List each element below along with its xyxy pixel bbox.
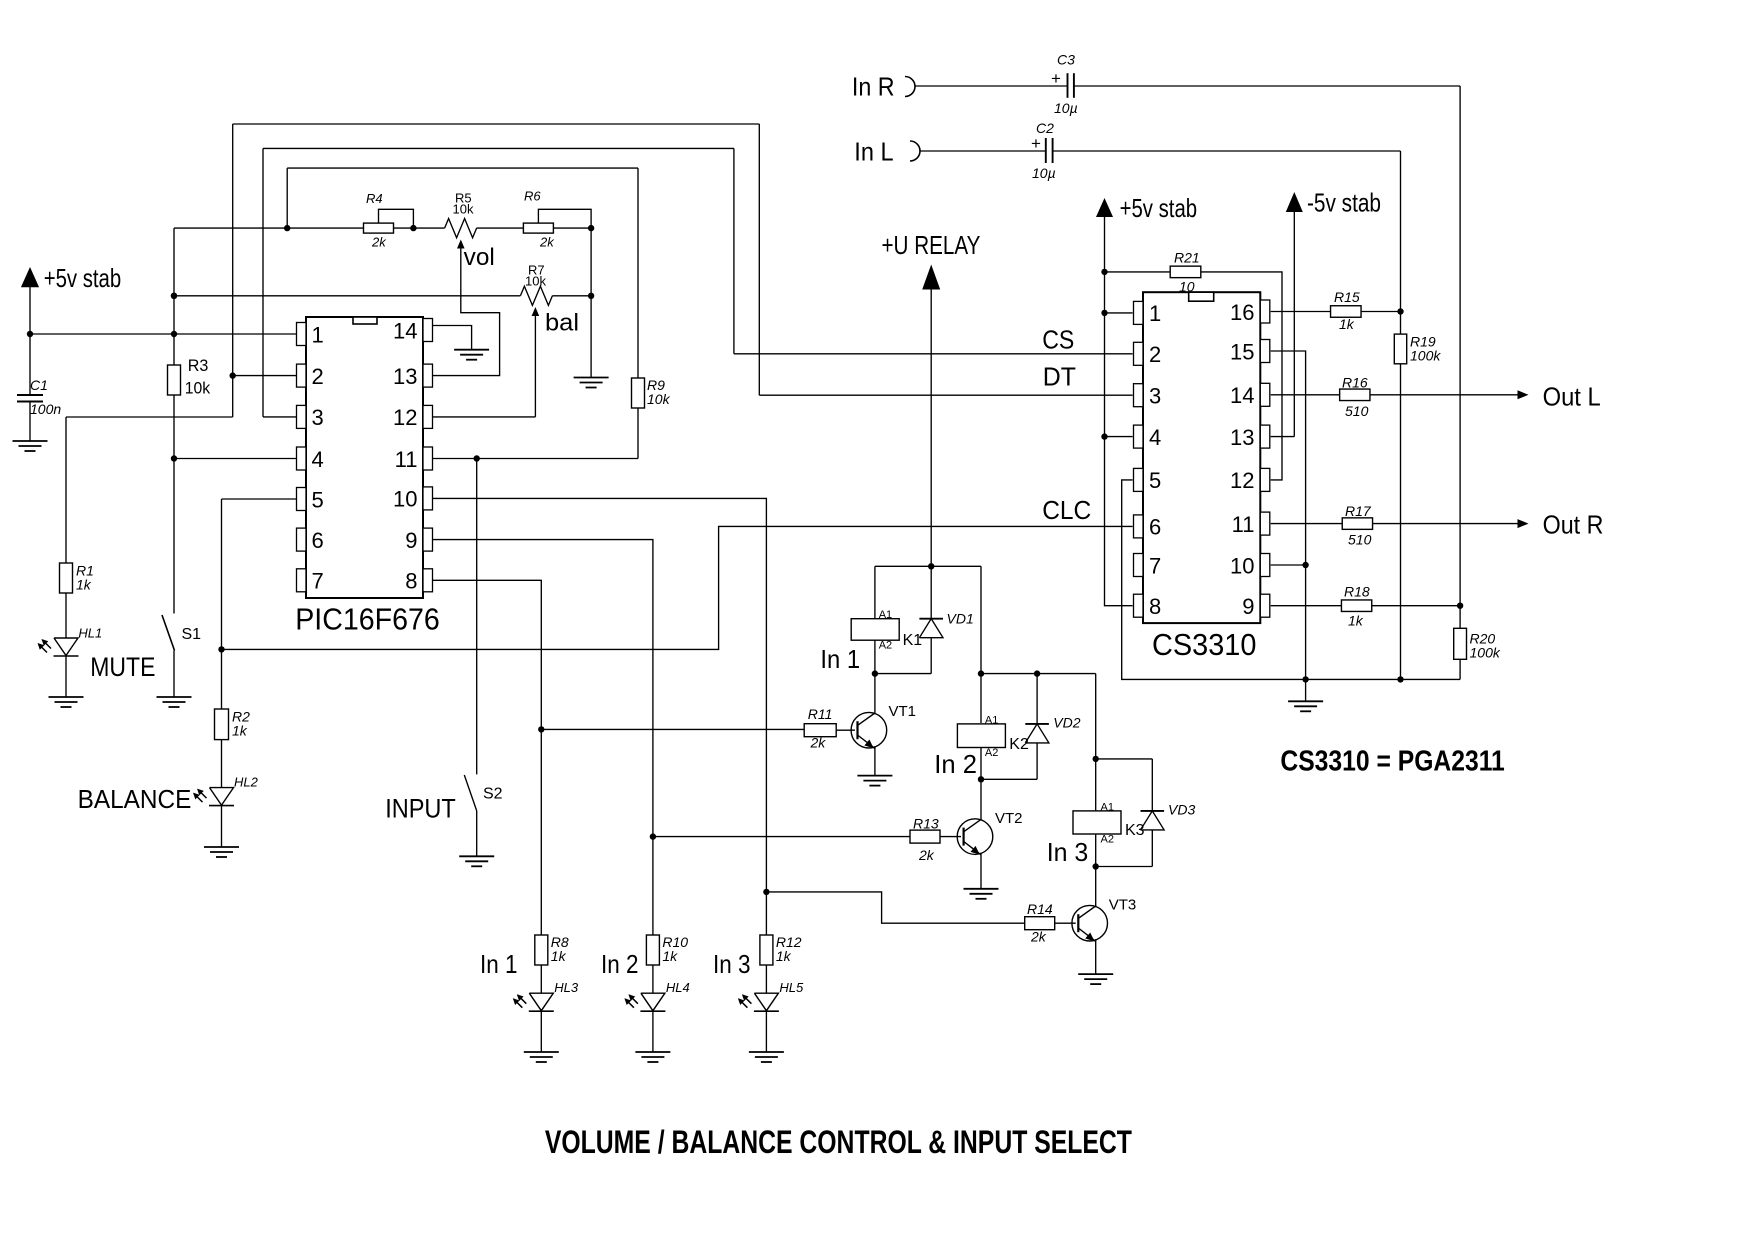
svg-text:R16: R16 (1342, 375, 1368, 391)
svg-text:+5v stab: +5v stab (44, 263, 122, 293)
svg-text:In 2: In 2 (601, 949, 639, 979)
svg-text:In 1: In 1 (820, 644, 860, 674)
svg-text:A2: A2 (879, 640, 892, 652)
svg-text:In 1: In 1 (480, 949, 518, 979)
svg-text:DT: DT (1043, 362, 1076, 392)
svg-text:R17: R17 (1345, 503, 1372, 519)
svg-text:14: 14 (1230, 383, 1254, 408)
svg-text:K2: K2 (1009, 736, 1029, 753)
svg-text:A2: A2 (985, 747, 998, 759)
svg-text:R6: R6 (524, 189, 541, 204)
svg-text:In 3: In 3 (1047, 837, 1089, 867)
svg-text:VT1: VT1 (889, 703, 917, 720)
svg-text:9: 9 (1242, 594, 1254, 619)
svg-text:VOLUME / BALANCE CONTROL & INP: VOLUME / BALANCE CONTROL & INPUT SELECT (545, 1124, 1132, 1160)
svg-text:S1: S1 (182, 626, 202, 643)
svg-text:R13: R13 (913, 816, 939, 832)
svg-text:CS3310: CS3310 (1152, 627, 1256, 662)
svg-text:+U RELAY: +U RELAY (882, 230, 981, 260)
svg-text:11: 11 (395, 447, 418, 472)
svg-text:12: 12 (1230, 468, 1254, 493)
svg-text:8: 8 (1149, 594, 1161, 619)
svg-text:10k: 10k (185, 379, 211, 398)
svg-text:+: + (1031, 134, 1041, 153)
svg-text:A1: A1 (985, 714, 998, 726)
svg-text:CLC: CLC (1042, 495, 1091, 525)
svg-text:10µ: 10µ (1032, 165, 1056, 181)
svg-text:9: 9 (405, 528, 417, 553)
svg-text:VD2: VD2 (1053, 715, 1080, 731)
svg-text:HL4: HL4 (666, 980, 690, 995)
svg-text:1k: 1k (76, 577, 92, 593)
svg-text:14: 14 (393, 318, 417, 343)
svg-text:INPUT: INPUT (385, 793, 456, 823)
svg-text:3: 3 (312, 405, 324, 430)
svg-text:K1: K1 (903, 632, 923, 649)
svg-text:1: 1 (312, 322, 324, 347)
svg-text:2k: 2k (539, 235, 555, 250)
svg-text:R14: R14 (1027, 901, 1053, 917)
svg-text:+: + (1051, 69, 1061, 88)
svg-text:A2: A2 (1101, 834, 1114, 846)
svg-text:2: 2 (312, 364, 324, 389)
svg-text:7: 7 (312, 569, 324, 594)
svg-text:PIC16F676: PIC16F676 (295, 602, 440, 637)
svg-text:HL5: HL5 (779, 980, 804, 995)
svg-text:100k: 100k (1410, 348, 1441, 364)
svg-text:4: 4 (312, 447, 324, 472)
svg-text:6: 6 (1149, 515, 1161, 540)
svg-text:2k: 2k (371, 235, 387, 250)
svg-text:bal: bal (545, 310, 579, 337)
svg-text:100n: 100n (30, 401, 61, 417)
svg-text:3: 3 (1149, 384, 1161, 409)
svg-text:510: 510 (1348, 532, 1372, 548)
svg-text:16: 16 (1230, 300, 1254, 325)
svg-text:R15: R15 (1334, 289, 1360, 305)
svg-text:11: 11 (1232, 512, 1255, 537)
svg-text:10: 10 (393, 487, 417, 512)
svg-text:VT2: VT2 (995, 810, 1023, 827)
svg-text:1k: 1k (232, 723, 248, 739)
svg-text:In L: In L (854, 137, 893, 167)
svg-text:1k: 1k (776, 948, 792, 964)
svg-text:510: 510 (1345, 403, 1369, 419)
svg-text:Out R: Out R (1543, 510, 1604, 540)
svg-text:10: 10 (1230, 553, 1254, 578)
svg-text:10k: 10k (453, 202, 474, 217)
svg-text:R21: R21 (1174, 250, 1200, 266)
svg-text:100k: 100k (1470, 645, 1501, 661)
svg-text:vol: vol (464, 244, 495, 271)
svg-text:R18: R18 (1344, 584, 1370, 600)
svg-text:In 3: In 3 (713, 949, 751, 979)
svg-text:In R: In R (852, 72, 895, 102)
svg-text:12: 12 (393, 405, 417, 430)
svg-text:2: 2 (1149, 342, 1161, 367)
svg-text:1k: 1k (551, 948, 567, 964)
svg-text:10k: 10k (525, 274, 546, 289)
svg-text:R4: R4 (366, 191, 383, 206)
svg-text:HL3: HL3 (554, 980, 579, 995)
svg-text:K3: K3 (1125, 822, 1145, 839)
svg-text:MUTE: MUTE (90, 652, 155, 682)
svg-text:S2: S2 (483, 786, 503, 803)
svg-text:10µ: 10µ (1054, 100, 1078, 116)
svg-text:1k: 1k (1348, 613, 1364, 629)
svg-text:A1: A1 (879, 609, 892, 621)
svg-text:C2: C2 (1036, 120, 1054, 136)
svg-text:CS3310 = PGA2311: CS3310 = PGA2311 (1280, 746, 1504, 778)
svg-text:R3: R3 (188, 356, 209, 375)
svg-text:BALANCE: BALANCE (78, 784, 192, 814)
svg-text:HL1: HL1 (78, 626, 102, 641)
svg-text:2k: 2k (1030, 929, 1047, 945)
svg-text:8: 8 (405, 569, 417, 594)
svg-text:4: 4 (1149, 425, 1161, 450)
svg-text:13: 13 (393, 364, 417, 389)
svg-text:2k: 2k (918, 847, 935, 863)
svg-text:C1: C1 (30, 377, 48, 393)
svg-text:A1: A1 (1101, 801, 1114, 813)
svg-text:-5v stab: -5v stab (1307, 187, 1381, 217)
svg-text:Out L: Out L (1543, 382, 1601, 412)
svg-text:7: 7 (1149, 553, 1161, 578)
svg-text:10: 10 (1179, 279, 1195, 295)
svg-text:In 2: In 2 (934, 749, 977, 779)
svg-text:10k: 10k (647, 391, 671, 407)
svg-text:1k: 1k (662, 948, 678, 964)
svg-text:+5v stab: +5v stab (1120, 193, 1198, 223)
svg-text:15: 15 (1230, 339, 1254, 364)
svg-text:5: 5 (1149, 468, 1161, 493)
svg-text:VD3: VD3 (1168, 802, 1195, 818)
svg-text:1: 1 (1149, 301, 1161, 326)
svg-text:6: 6 (312, 528, 324, 553)
svg-text:C3: C3 (1057, 52, 1075, 68)
svg-text:CS: CS (1042, 325, 1074, 355)
svg-text:2k: 2k (810, 735, 827, 751)
svg-text:R11: R11 (808, 706, 833, 722)
svg-text:VD1: VD1 (947, 611, 974, 627)
svg-text:1k: 1k (1339, 316, 1355, 332)
svg-text:5: 5 (312, 487, 324, 512)
svg-text:HL2: HL2 (234, 775, 259, 790)
svg-text:13: 13 (1230, 425, 1254, 450)
svg-text:VT3: VT3 (1109, 897, 1137, 914)
